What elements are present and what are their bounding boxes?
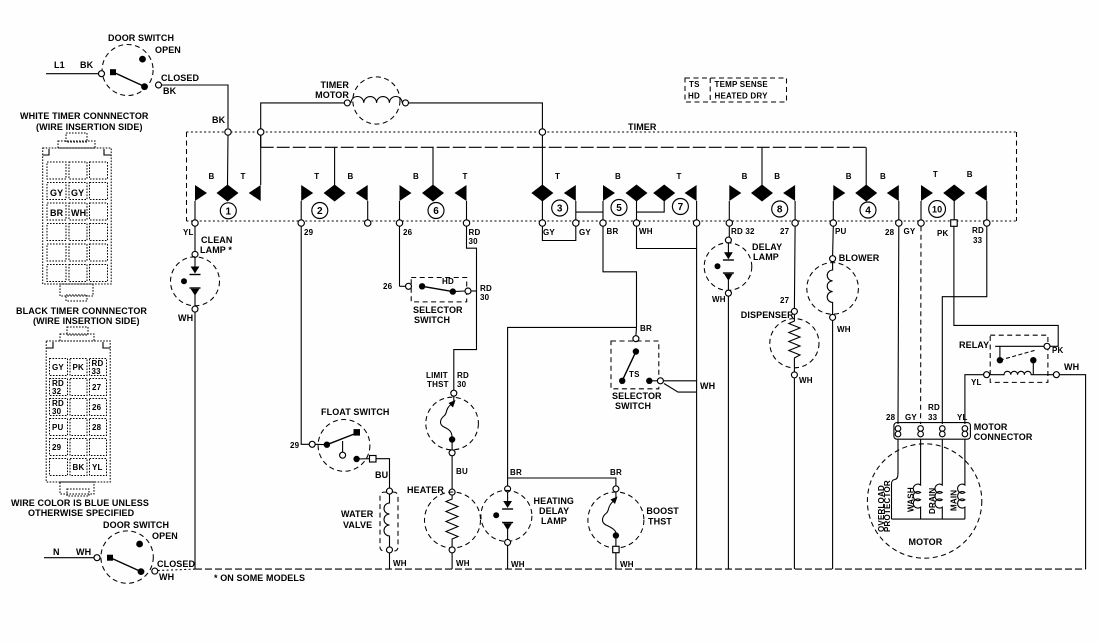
svg-text:T: T [933, 170, 938, 179]
svg-text:BK: BK [80, 60, 94, 70]
svg-text:33: 33 [973, 236, 983, 245]
svg-text:32: 32 [52, 387, 62, 396]
svg-text:B: B [348, 172, 354, 181]
svg-text:HEATER: HEATER [407, 485, 444, 495]
contact 4 [833, 147, 899, 220]
svg-text:HD: HD [688, 92, 700, 101]
wire float switch to water valve [376, 459, 390, 488]
contact 3 [531, 172, 603, 241]
svg-text:RD: RD [469, 228, 481, 237]
timer internal feed line [261, 146, 867, 148]
svg-text:28: 28 [92, 423, 102, 432]
float switch [309, 407, 389, 488]
svg-text:DOOR SWITCH: DOOR SWITCH [108, 33, 174, 43]
drain winding [935, 439, 942, 519]
motor connector [894, 413, 1033, 442]
heating delay lamp [481, 486, 574, 569]
wire PK to relay [954, 227, 1058, 347]
svg-text:33: 33 [928, 413, 938, 422]
SECTION: left column [11, 33, 305, 583]
svg-text:B: B [967, 170, 973, 179]
svg-text:GY: GY [905, 413, 917, 422]
relay [959, 335, 1086, 569]
svg-text:GY: GY [50, 188, 63, 198]
svg-text:5: 5 [616, 203, 622, 214]
contact 1 [195, 135, 261, 220]
svg-text:T: T [462, 172, 467, 181]
main winding [958, 439, 965, 519]
svg-text:DELAY: DELAY [752, 242, 782, 252]
svg-text:8: 8 [777, 205, 783, 216]
relay coil [990, 371, 1054, 374]
svg-text:WH: WH [76, 547, 91, 557]
svg-text:LAMP: LAMP [753, 252, 779, 262]
svg-text:RD: RD [457, 371, 469, 380]
svg-text:BR: BR [610, 468, 622, 477]
svg-text:BR: BR [640, 324, 652, 333]
svg-text:CLOSED: CLOSED [161, 73, 200, 83]
svg-text:WH: WH [1064, 362, 1079, 372]
svg-text:SWITCH: SWITCH [615, 401, 651, 411]
svg-text:BR: BR [607, 227, 619, 236]
svg-text:DISPENSER: DISPENSER [741, 310, 794, 320]
svg-text:4: 4 [865, 206, 871, 217]
svg-text:BK: BK [212, 115, 226, 125]
wire to timer [162, 85, 229, 128]
svg-text:SWITCH: SWITCH [414, 315, 450, 325]
svg-text:30: 30 [469, 237, 479, 246]
contact 10 [921, 170, 987, 220]
svg-text:GY: GY [71, 188, 84, 198]
svg-text:10: 10 [932, 204, 942, 214]
boost thermostat [588, 486, 679, 569]
svg-text:MOTOR: MOTOR [909, 537, 943, 547]
svg-text:* ON SOME MODELS: * ON SOME MODELS [214, 573, 305, 583]
svg-text:BK: BK [163, 86, 177, 96]
svg-text:T: T [676, 172, 681, 181]
wire relay WH to bus [1059, 375, 1085, 569]
svg-text:WH: WH [456, 559, 470, 568]
svg-text:BR: BR [50, 208, 64, 218]
svg-text:RD: RD [928, 403, 940, 412]
svg-text:LAMP: LAMP [541, 516, 567, 526]
svg-text:LAMP *: LAMP * [200, 245, 232, 255]
water valve [341, 488, 407, 569]
svg-text:OPEN: OPEN [152, 531, 178, 541]
svg-text:WIRE COLOR IS BLUE UNLESS: WIRE COLOR IS BLUE UNLESS [11, 498, 149, 508]
svg-text:PROTECTOR: PROTECTOR [883, 480, 892, 532]
clean lamp [171, 226, 233, 569]
svg-text:28: 28 [885, 228, 895, 237]
svg-text:BLACK TIMER CONNNECTOR: BLACK TIMER CONNNECTOR [16, 306, 147, 316]
svg-text:CLEAN: CLEAN [201, 235, 233, 245]
svg-text:TIMER: TIMER [321, 80, 350, 90]
BR branch to boost [508, 468, 622, 486]
connector cells [47, 162, 108, 282]
svg-text:RD 32: RD 32 [731, 227, 755, 236]
svg-text:THST: THST [648, 517, 672, 527]
svg-text:27: 27 [92, 383, 102, 392]
svg-text:BR: BR [510, 468, 522, 477]
svg-text:CONNECTOR: CONNECTOR [974, 432, 1033, 442]
svg-text:HD: HD [442, 277, 454, 286]
svg-text:BLOWER: BLOWER [839, 253, 880, 263]
svg-text:BOOST: BOOST [646, 506, 679, 516]
svg-text:TIMER: TIMER [628, 122, 657, 132]
svg-text:DELAY: DELAY [539, 506, 569, 516]
svg-text:YL: YL [957, 413, 968, 422]
svg-text:33: 33 [92, 367, 102, 376]
door switch S1 (top left) [46, 33, 228, 128]
contact 5 [603, 172, 648, 220]
wire 28 to motor connector [886, 226, 899, 424]
svg-text:26: 26 [92, 403, 102, 412]
motor [867, 439, 981, 558]
svg-text:28: 28 [886, 413, 896, 422]
wire N [44, 557, 95, 559]
wire BR from contact 5 down [603, 226, 637, 327]
wire RD30 timer to limit thermostat [454, 226, 477, 390]
svg-text:RD: RD [480, 284, 492, 293]
svg-text:WH: WH [511, 560, 525, 569]
svg-text:PK: PK [1052, 346, 1064, 355]
wire timer motor left to timer [261, 103, 348, 147]
svg-text:MOTOR: MOTOR [974, 422, 1008, 432]
svg-text:GY: GY [579, 228, 591, 237]
svg-text:FLOAT SWITCH: FLOAT SWITCH [321, 407, 390, 417]
svg-text:27: 27 [780, 296, 790, 305]
wire TS switch to WH return [663, 380, 696, 382]
svg-text:WH: WH [620, 560, 634, 569]
winding common junction [892, 518, 965, 520]
wire RD33 to motor connector [928, 226, 987, 424]
svg-text:TEMP SENSE: TEMP SENSE [715, 80, 769, 89]
svg-text:B: B [413, 172, 419, 181]
door switch S2 (bottom left) [44, 520, 196, 583]
svg-text:WH: WH [700, 381, 715, 391]
svg-text:T: T [555, 172, 560, 181]
svg-text:LIMIT: LIMIT [426, 371, 448, 380]
timer box [187, 120, 1017, 221]
svg-text:B: B [774, 172, 780, 181]
wire link contact3 to contact5 [576, 211, 603, 213]
dispenser [741, 226, 819, 569]
svg-text:PU: PU [52, 423, 64, 432]
svg-text:BU: BU [375, 470, 388, 480]
wash winding [913, 439, 920, 519]
svg-text:TS: TS [629, 370, 640, 379]
svg-text:WH: WH [712, 295, 726, 304]
svg-text:WH: WH [393, 559, 407, 568]
svg-text:GY: GY [904, 227, 916, 236]
SECTION: right side [867, 226, 1085, 569]
SECTION: timer [183, 77, 1017, 246]
wire timer motor right to contact 3 [406, 103, 543, 185]
svg-text:3: 3 [557, 204, 563, 215]
svg-text:B: B [615, 172, 621, 181]
delay lamp [704, 226, 782, 569]
svg-text:THST: THST [427, 380, 449, 389]
svg-text:DOOR SWITCH: DOOR SWITCH [103, 520, 169, 530]
timer wire labels [183, 226, 984, 246]
black timer connector [16, 306, 147, 496]
svg-text:VALVE: VALVE [343, 520, 372, 530]
timer motor [261, 77, 543, 185]
wire clean lamp to neutral bus [194, 312, 196, 569]
svg-text:B: B [742, 172, 748, 181]
svg-text:YL: YL [183, 228, 194, 237]
svg-text:PU: PU [835, 227, 847, 236]
svg-text:26: 26 [383, 282, 393, 291]
contact 2 [301, 147, 368, 220]
svg-text:N: N [53, 547, 60, 557]
svg-text:30: 30 [52, 407, 62, 416]
svg-text:(WIRE INSERTION SIDE): (WIRE INSERTION SIDE) [36, 122, 143, 132]
wire GY (dashed) to motor connector [905, 226, 921, 424]
svg-text:WH: WH [71, 208, 86, 218]
timer bottom terminals [192, 220, 990, 227]
svg-text:YL: YL [92, 463, 103, 472]
svg-text:HEATING: HEATING [534, 496, 575, 506]
legend TS/HD box [685, 78, 787, 102]
svg-text:B: B [880, 172, 886, 181]
SECTION: middle components [158, 226, 1086, 571]
svg-text:RD: RD [972, 226, 984, 235]
wire 29 to float switch [290, 226, 309, 450]
svg-text:WHITE TIMER CONNNECTOR: WHITE TIMER CONNNECTOR [20, 111, 149, 121]
svg-text:L1: L1 [54, 60, 65, 70]
heater [407, 485, 481, 569]
svg-text:GY: GY [52, 363, 64, 372]
svg-text:SELECTOR: SELECTOR [612, 391, 662, 401]
selector switch HD [406, 277, 492, 325]
svg-text:29: 29 [52, 443, 62, 452]
contact 8 [729, 147, 795, 220]
svg-text:T: T [314, 172, 319, 181]
svg-text:PK: PK [73, 363, 85, 372]
svg-text:26: 26 [403, 228, 413, 237]
svg-text:29: 29 [290, 441, 300, 450]
svg-text:BU: BU [456, 467, 468, 476]
svg-text:30: 30 [480, 293, 490, 302]
svg-text:CLOSED: CLOSED [157, 559, 196, 569]
svg-text:(WIRE INSERTION SIDE): (WIRE INSERTION SIDE) [33, 316, 140, 326]
svg-text:B: B [846, 172, 852, 181]
svg-text:WH: WH [178, 313, 193, 323]
overload protector [892, 439, 899, 519]
wire GY loop under contact 3 [542, 226, 575, 240]
svg-text:T: T [240, 172, 245, 181]
svg-text:RELAY: RELAY [959, 340, 989, 350]
switch blade [114, 73, 145, 87]
svg-text:WH: WH [159, 572, 174, 582]
wire 26 to selector switch [383, 226, 406, 291]
wire L1 [46, 73, 100, 75]
WH return line to bus [696, 226, 698, 569]
svg-text:WH: WH [799, 376, 813, 385]
svg-text:29: 29 [304, 228, 314, 237]
svg-text:YL: YL [971, 378, 982, 387]
svg-text:OTHERWISE SPECIFIED: OTHERWISE SPECIFIED [28, 508, 135, 518]
svg-text:B: B [209, 172, 215, 181]
BR node [508, 324, 652, 486]
svg-text:WH: WH [837, 325, 851, 334]
svg-text:WH: WH [639, 227, 653, 236]
svg-text:HEATED DRY: HEATED DRY [715, 92, 769, 101]
svg-text:30: 30 [457, 380, 467, 389]
svg-text:WATER: WATER [341, 509, 374, 519]
blower [807, 226, 880, 569]
svg-text:PK: PK [937, 229, 949, 238]
svg-text:DRAIN: DRAIN [928, 488, 937, 514]
svg-text:27: 27 [780, 227, 790, 236]
svg-text:OPEN: OPEN [155, 45, 181, 55]
svg-text:1: 1 [226, 207, 232, 218]
wire WH from contact 5/7 to return line [637, 226, 697, 248]
contact 6 [400, 147, 468, 220]
svg-text:2: 2 [317, 206, 323, 217]
svg-text:MOTOR: MOTOR [315, 90, 349, 100]
contact 7 [637, 172, 697, 220]
svg-text:WASH: WASH [907, 487, 916, 512]
wire relay YL to pin 4 [965, 375, 984, 424]
svg-text:TS: TS [689, 80, 700, 89]
white timer connector [20, 111, 149, 301]
switch blade [111, 558, 141, 572]
svg-text:BK: BK [73, 463, 85, 472]
neutral bus [158, 569, 1086, 570]
limit thermostat [426, 371, 479, 489]
svg-text:6: 6 [433, 206, 439, 217]
svg-text:GY: GY [543, 228, 555, 237]
svg-text:MAIN: MAIN [950, 490, 959, 511]
svg-text:SELECTOR: SELECTOR [413, 305, 463, 315]
selector switch TS [611, 341, 715, 411]
svg-text:7: 7 [678, 202, 684, 213]
